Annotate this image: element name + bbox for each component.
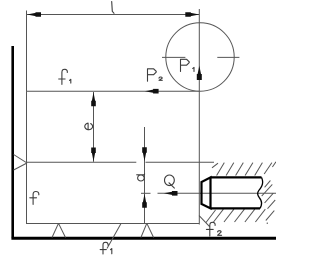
label f1 top : f (62, 69, 67, 84)
label l (112, 2, 114, 14)
label f2 : f (210, 222, 215, 236)
label f1 bottom : f (103, 242, 108, 254)
label Q (165, 175, 175, 186)
screw break line (258, 177, 263, 208)
ground (11, 237, 276, 240)
support triangle T2 (141, 223, 147, 237)
center tick right (217, 56, 239, 58)
label P1 : P (181, 59, 190, 71)
support triangle T1 (52, 223, 59, 237)
wall pivot upper (14, 155, 27, 164)
screw outline (202, 177, 263, 208)
dim e down arrowhead (91, 148, 96, 162)
roller circle (166, 23, 234, 91)
label f inner : f (33, 192, 39, 205)
line of action Q main (158, 192, 277, 194)
block left edge (26, 91, 28, 224)
circle centerline / block right edge (198, 9, 200, 225)
line of action Q dash (141, 192, 151, 194)
hatch right of break (265, 181, 271, 188)
label P2 : P (148, 69, 157, 81)
force Q arrowhead (164, 191, 178, 196)
label P2 : sub 2 (159, 77, 162, 80)
label f1 top : sub 1 (70, 79, 71, 83)
label a (rotated) (137, 174, 145, 181)
block bottom edge (27, 223, 200, 225)
wall (11, 46, 14, 238)
dim l right arrowhead (185, 12, 199, 17)
hatch upper band (212, 163, 218, 168)
line of action middle right part (146, 161, 215, 163)
label f1 bottom : sub 1 (111, 249, 112, 254)
label P1 : sub 1 (193, 67, 194, 71)
force P1 arrowhead (197, 66, 202, 81)
dim e up arrowhead (91, 92, 96, 106)
line of action middle left part (27, 161, 136, 163)
dim l left arrowhead (27, 12, 41, 17)
dim a up arrowhead (142, 194, 147, 208)
dimension l line (27, 14, 199, 16)
hatch dot (267, 223, 268, 224)
label e (rotated) (85, 123, 93, 130)
dim a vertical line (144, 127, 146, 224)
label f2 : sub 2 (218, 231, 222, 236)
force P2 arrowhead (145, 89, 159, 94)
leader f1 (107, 224, 121, 249)
leader f2 (199, 216, 210, 227)
block top edge (27, 90, 200, 92)
dim a down arrowhead (142, 147, 147, 161)
center tick left (162, 56, 185, 58)
hatch lower band (206, 210, 216, 223)
wall pivot lower (14, 163, 27, 170)
extension line left (26, 11, 28, 92)
dim e line (93, 92, 95, 162)
